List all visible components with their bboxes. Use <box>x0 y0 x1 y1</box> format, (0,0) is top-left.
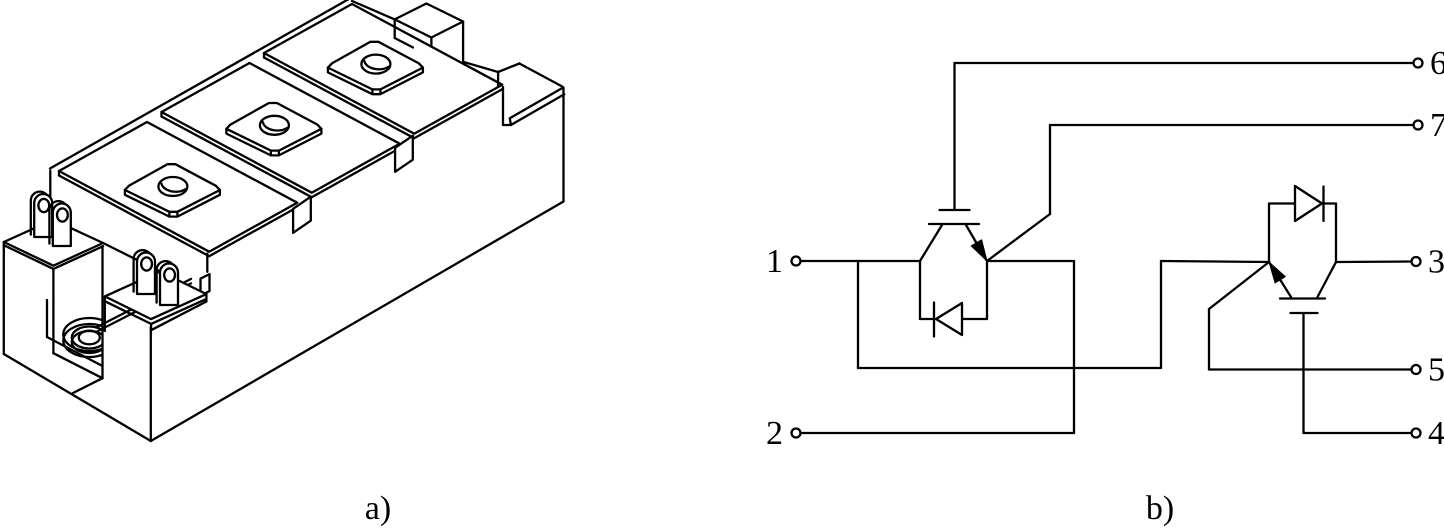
recess outer lip <box>73 378 103 393</box>
D2 cathode bar <box>1322 187 1324 222</box>
wire to terminal 5 <box>1209 368 1412 370</box>
wire D2 to Q2 collector <box>1335 204 1337 263</box>
wire gate to terminal 6 <box>955 62 1414 64</box>
wire terminal 1 to Q1 collector <box>801 260 921 262</box>
module case front corner edge <box>150 327 152 441</box>
pad 1 slab side <box>125 190 220 217</box>
terminal 1 <box>792 257 801 266</box>
case back top edge <box>50 0 348 169</box>
mounting pad 2 top face <box>226 103 321 151</box>
D1 triangle <box>936 303 962 335</box>
wire rail to Q2 emitter <box>1161 261 1269 262</box>
svg-text:2: 2 <box>766 415 783 452</box>
wire Q1 emitter right <box>987 260 1074 262</box>
pad 2 slab side <box>226 129 321 156</box>
grommet rings <box>63 318 115 357</box>
wire Q2 aux emitter diagonal <box>1209 262 1269 309</box>
pad 3 slab side <box>328 68 423 95</box>
IGBT Q1 emitter lead <box>966 225 987 261</box>
recess floor front edge <box>47 337 103 366</box>
D1 right lead <box>962 318 987 320</box>
svg-text:7: 7 <box>1430 107 1444 144</box>
rim lower short vertical <box>510 118 511 125</box>
D1 cathode bar <box>933 303 935 337</box>
module case bottom-right edge <box>151 202 564 442</box>
module case bottom-left edge <box>4 354 151 441</box>
diode D1 left lead <box>920 318 933 320</box>
svg-text:1: 1 <box>766 243 783 280</box>
terminal lug 2b <box>157 261 175 303</box>
terminal plate 3 top face <box>264 4 502 134</box>
IGBT Q2 gate bar <box>1291 312 1318 314</box>
terminal lug 1b <box>49 201 67 243</box>
tower 1 front corner vertical <box>52 269 54 353</box>
wire down to terminal 2 rail <box>1073 261 1075 433</box>
IGBT Q2 emitter lead <box>1269 262 1291 297</box>
IGBT Q2 collector lead <box>1318 262 1337 297</box>
D2 right lead <box>1324 202 1337 204</box>
wire Q1 gate lead <box>953 63 955 209</box>
step edge tower1 to deck <box>103 243 160 271</box>
D2 left lead <box>1269 202 1295 204</box>
wire to terminal 7 <box>1050 124 1414 126</box>
tower 2 deck collar <box>105 299 207 324</box>
pad 1 hole inner edge <box>161 184 186 192</box>
plate 3 slab thickness edges <box>264 58 502 139</box>
wire Q2 emitter up to D2 <box>1268 204 1270 263</box>
pad 2 hole <box>260 116 289 135</box>
case back-right edge segment <box>352 1 395 19</box>
svg-text:4: 4 <box>1428 415 1444 452</box>
pad 3 hole inner edge <box>364 61 389 69</box>
back edge tab to rim <box>463 62 498 72</box>
pad 2 hole inner edge <box>263 122 288 130</box>
svg-text:6: 6 <box>1430 45 1444 82</box>
IGBT Q1 collector lead <box>920 225 942 261</box>
terminal 2 <box>792 429 801 438</box>
tower 1 right corner vertical <box>101 246 103 378</box>
terminal lug 1a <box>31 192 49 235</box>
wire to terminal 4 <box>1304 432 1412 434</box>
wire D1 to Q1 emitter <box>986 261 988 319</box>
notch bottom edge <box>503 124 511 126</box>
IGBT Q1 body bar <box>929 223 979 225</box>
fold flap B1 <box>293 197 311 233</box>
module case left corner edge <box>3 242 5 354</box>
terminal plate 2 top face <box>162 63 400 193</box>
tower 1 bottom edge <box>53 353 102 378</box>
wire bottom rail <box>858 367 1161 369</box>
back tab box front corner vertical <box>430 38 432 46</box>
mounting pad 3 top face <box>328 42 423 90</box>
terminal lug 2a <box>134 250 152 292</box>
Q1 emitter arrowhead <box>971 240 987 261</box>
plate 1 S corner fold vertical <box>206 254 208 272</box>
mounting pad 1 top face <box>125 164 220 212</box>
back tab box right face <box>462 22 464 62</box>
pad 1 hole <box>158 177 187 196</box>
rim front face double edge <box>510 88 563 119</box>
IGBT Q1 gate bar <box>940 209 970 211</box>
wire node down <box>857 261 859 368</box>
tower 1 collar <box>4 245 103 269</box>
IGBT Q2 body bar <box>1280 297 1325 299</box>
terminal 3 <box>1412 257 1421 266</box>
fold flap B2 <box>395 136 413 172</box>
pad 3 hole <box>361 55 390 74</box>
right end rim wall top <box>497 72 499 87</box>
wire rail up <box>1160 261 1162 368</box>
svg-text:b): b) <box>1146 490 1174 527</box>
case back-left corner vertical <box>49 171 51 227</box>
plate 2 slab thickness edges <box>162 117 400 198</box>
back tab box left face <box>394 19 396 38</box>
Q2 emitter arrowhead <box>1269 262 1285 283</box>
rim notch vertical <box>502 87 504 125</box>
svg-text:a): a) <box>365 490 391 527</box>
svg-text:3: 3 <box>1428 244 1444 281</box>
terminal plate 1 top face <box>59 122 297 252</box>
terminal 6 <box>1414 59 1423 68</box>
terminal tower 1 top face <box>4 220 103 266</box>
module case right corner edge <box>562 88 564 202</box>
terminal 5 <box>1412 365 1421 374</box>
terminal 4 <box>1412 429 1421 438</box>
D2 triangle <box>1295 186 1322 221</box>
svg-text:5: 5 <box>1428 352 1444 389</box>
wire Q2 gate lead down <box>1302 313 1304 433</box>
terminal 7 <box>1414 121 1423 130</box>
tower 2 deck body edges <box>104 296 106 331</box>
back tab box top face <box>395 4 463 38</box>
fold flap A0 <box>201 274 210 296</box>
wire Q1 aux emitter diagonal <box>987 214 1050 261</box>
case front-top edge double band <box>96 279 191 328</box>
wire terminal 2 <box>801 432 1075 434</box>
recess inner corner vertical <box>46 300 48 337</box>
tower 2 deck top face <box>105 271 207 319</box>
plate 1 slab thickness edges <box>59 176 297 257</box>
wire Q2 collector to terminal 3 <box>1336 260 1412 263</box>
